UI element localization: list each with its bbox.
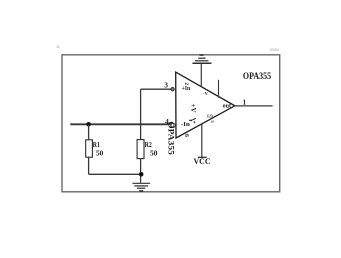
wire: pin 2 to top ground xyxy=(200,63,202,87)
junction dot at R2 bottom xyxy=(139,172,144,177)
svg-text:5: 5 xyxy=(210,120,215,123)
faint smudge top-right xyxy=(270,49,279,52)
svg-text:E/D: E/D xyxy=(207,113,213,118)
wire: horizontal to +In (pin 3) xyxy=(141,88,175,90)
svg-text:6: 6 xyxy=(183,134,189,137)
svg-text:1: 1 xyxy=(243,99,247,106)
resistor R2 xyxy=(140,139,142,141)
VCC power bar xyxy=(198,156,207,158)
wire: vertical from +In wire down to R2 xyxy=(140,89,142,140)
frame border xyxy=(62,55,280,192)
wire: pin 6 to VCC xyxy=(201,124,203,157)
node: ring at pin 4 xyxy=(171,123,175,127)
svg-text:-V: -V xyxy=(203,91,209,96)
svg-text:R1: R1 xyxy=(93,141,101,149)
svg-text:R2: R2 xyxy=(145,141,153,149)
svg-text:50: 50 xyxy=(96,149,104,157)
resistor R1 xyxy=(88,124,90,140)
ground (top) xyxy=(193,55,212,63)
rotated glyph 4 near -In xyxy=(189,118,196,123)
svg-text:2: 2 xyxy=(183,82,189,85)
ground (bottom, below R2) xyxy=(133,183,151,191)
svg-text:VCC: VCC xyxy=(194,157,211,166)
svg-text:out: out xyxy=(223,103,232,110)
wire: input net horizontal to -In (pin 4) xyxy=(70,123,174,125)
wire: output (pin 1) xyxy=(235,105,273,107)
svg-text:3: 3 xyxy=(164,81,168,90)
op-amp U1 OPA355 triangle xyxy=(176,72,235,138)
svg-text:OPA355: OPA355 xyxy=(243,71,271,82)
svg-text:+V: +V xyxy=(189,104,197,113)
wire: R1 bottom to R2 bottom xyxy=(89,173,142,175)
pin 5 stub (E/D) xyxy=(218,80,220,98)
svg-text:OPA355: OPA355 xyxy=(167,121,176,155)
node: ring at pin 3 xyxy=(171,88,174,91)
svg-text:-In: -In xyxy=(181,121,190,128)
svg-text:50: 50 xyxy=(150,150,158,158)
junction dot at R1 top xyxy=(86,122,91,127)
svg-text:+In: +In xyxy=(182,85,191,92)
faint smudge top-left xyxy=(57,46,60,49)
